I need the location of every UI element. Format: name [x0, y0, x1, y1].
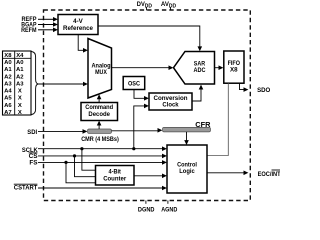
- svg-text:OSC: OSC: [128, 80, 140, 87]
- svg-text:DD: DD: [145, 3, 153, 9]
- svg-text:SDI: SDI: [27, 129, 37, 136]
- command decode block: [81, 103, 118, 121]
- FIFO block: [224, 51, 244, 83]
- svg-text:A3: A3: [16, 81, 24, 87]
- svg-text:A7: A7: [4, 110, 12, 116]
- svg-text:A1: A1: [16, 67, 24, 73]
- svg-text:X: X: [18, 110, 22, 116]
- svg-text:A0: A0: [4, 60, 12, 66]
- OSC block: [123, 77, 145, 90]
- wire CMR to CFR: [112, 128, 163, 133]
- pin SCLK: [22, 146, 167, 154]
- wire CFR to control logic: [184, 132, 189, 145]
- wire OSC to conversion clock: [134, 90, 149, 101]
- svg-text:X8: X8: [4, 53, 12, 59]
- svg-text:A6: A6: [4, 103, 12, 109]
- svg-text:CSTART: CSTART: [14, 185, 38, 192]
- svg-text:4-Bit: 4-Bit: [109, 168, 121, 175]
- channel select table: [3, 51, 32, 116]
- pin CS (active low): [29, 153, 167, 160]
- svg-text:Decode: Decode: [88, 111, 110, 118]
- wire reference output to SAR ADC top: [98, 26, 202, 51]
- svg-text:A3: A3: [4, 81, 12, 87]
- wire CMR to command decode: [97, 121, 102, 129]
- wire channels to analog mux: [39, 82, 88, 87]
- pin FS: [29, 160, 167, 167]
- svg-text:X4: X4: [16, 53, 24, 59]
- svg-text:Counter: Counter: [103, 176, 127, 183]
- svg-text:CMR (4 MSBs): CMR (4 MSBs): [81, 136, 119, 143]
- svg-text:X8: X8: [230, 67, 238, 74]
- conversion clock block: [149, 93, 192, 110]
- pin AGND: [161, 201, 177, 214]
- svg-text:Logic: Logic: [179, 168, 195, 175]
- svg-text:DGND: DGND: [138, 207, 155, 214]
- wire counter to control logic: [134, 174, 167, 179]
- pin REFM: [21, 27, 58, 34]
- pin EOC/INT (INT active low): [258, 170, 281, 178]
- svg-text:ADC: ADC: [194, 67, 206, 74]
- svg-text:A2: A2: [16, 74, 24, 80]
- wire command decode to mux: [97, 94, 102, 102]
- svg-text:Reference: Reference: [63, 25, 94, 32]
- brace grouping channel inputs: [32, 52, 39, 115]
- svg-text:Clock: Clock: [162, 102, 179, 109]
- wire SAR ADC to FIFO: [215, 65, 224, 70]
- control logic block: [167, 145, 207, 193]
- svg-text:AGND: AGND: [161, 207, 177, 214]
- svg-text:X: X: [18, 103, 22, 109]
- svg-text:A1: A1: [4, 67, 12, 73]
- svg-text:REFM: REFM: [21, 27, 36, 34]
- CFR register bar: [163, 122, 211, 132]
- svg-text:A2: A2: [4, 74, 12, 80]
- junction FS branch to counter: [64, 161, 95, 183]
- svg-text:X: X: [18, 96, 22, 102]
- dashed device boundary: [44, 10, 251, 201]
- svg-text:A4: A4: [4, 89, 12, 95]
- pin SDI: [27, 129, 87, 136]
- svg-text:A5: A5: [4, 96, 12, 102]
- svg-text:CFR: CFR: [195, 122, 210, 129]
- pin CSTART (active low): [14, 184, 167, 191]
- pin DVDD: [137, 1, 153, 11]
- SAR ADC: [174, 52, 215, 85]
- svg-text:4-V: 4-V: [73, 18, 84, 25]
- svg-text:A0: A0: [16, 60, 24, 66]
- wire FIFO to SDO pin: [240, 83, 249, 92]
- pin AVDD: [161, 1, 177, 11]
- pin BGAP: [21, 22, 58, 29]
- 4-bit counter block: [96, 166, 135, 186]
- svg-text:FS: FS: [29, 160, 38, 167]
- CMR register bar: [81, 129, 119, 143]
- svg-text:SDO: SDO: [257, 87, 270, 94]
- svg-text:EOC/INT: EOC/INT: [258, 171, 280, 178]
- svg-text:DD: DD: [169, 3, 177, 9]
- wire SCLK branch to conversion clock: [132, 104, 149, 151]
- junction SCLK branch to counter: [80, 147, 95, 170]
- wire control logic to EOC/INT pin: [207, 171, 248, 176]
- svg-text:MUX: MUX: [95, 69, 108, 76]
- junction CS branch to counter: [73, 154, 96, 176]
- wire conversion clock to SAR ADC bottom: [192, 85, 203, 101]
- pin REFP: [22, 16, 58, 23]
- svg-text:X: X: [18, 89, 22, 95]
- wire mux output to SAR ADC: [112, 65, 174, 70]
- wire control logic to FIFO: [207, 83, 228, 155]
- analog mux: [88, 39, 112, 99]
- pin DGND: [138, 201, 155, 214]
- 4-V Reference block U: voltage reference: [58, 15, 98, 35]
- wire reference to analog mux input: [78, 35, 88, 53]
